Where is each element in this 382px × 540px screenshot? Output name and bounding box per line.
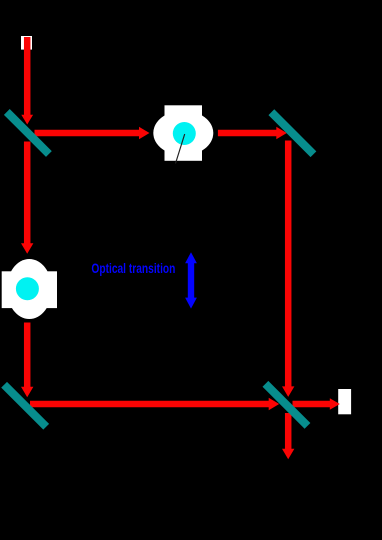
svg-text:Optical transition: Optical transition — [91, 261, 175, 276]
